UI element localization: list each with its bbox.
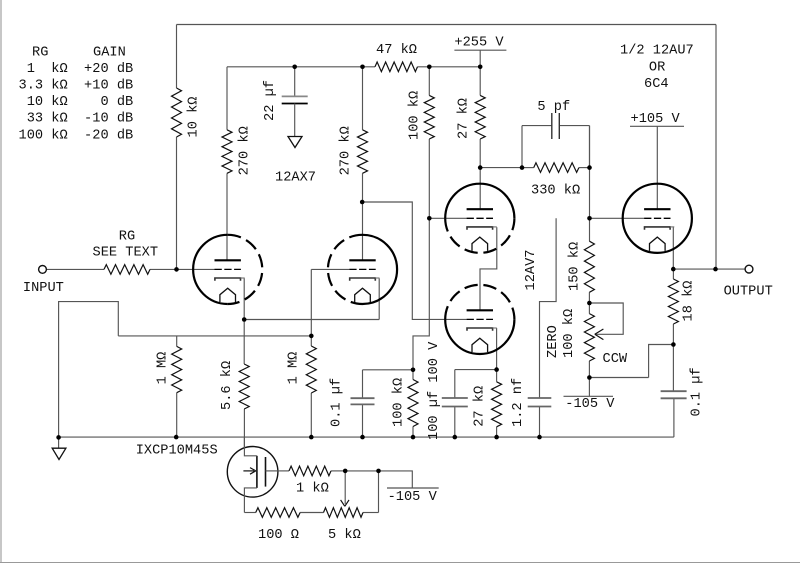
svg-text:OR: OR xyxy=(649,61,665,76)
svg-text:GAIN: GAIN xyxy=(93,45,126,60)
svg-text:5.6 kΩ: 5.6 kΩ xyxy=(220,361,235,410)
svg-text:12AV7: 12AV7 xyxy=(524,250,539,291)
svg-text:6C4: 6C4 xyxy=(644,77,669,92)
svg-text:IXCP10M45S: IXCP10M45S xyxy=(136,444,218,459)
svg-text:27 kΩ: 27 kΩ xyxy=(456,98,471,139)
svg-text:SEE TEXT: SEE TEXT xyxy=(93,246,159,261)
svg-text:0.1 µf: 0.1 µf xyxy=(690,367,705,416)
svg-text:+105 V: +105 V xyxy=(631,112,681,127)
svg-text:INPUT: INPUT xyxy=(23,281,64,296)
svg-text:47 kΩ: 47 kΩ xyxy=(376,43,417,58)
svg-text:22 µf: 22 µf xyxy=(263,80,278,121)
svg-text:18 kΩ: 18 kΩ xyxy=(681,281,696,322)
svg-text:12AX7: 12AX7 xyxy=(275,171,316,186)
svg-text:330 kΩ: 330 kΩ xyxy=(531,184,580,199)
svg-text:100 kΩ: 100 kΩ xyxy=(562,309,577,358)
svg-text:33 kΩ -10 dB: 33 kΩ -10 dB xyxy=(19,112,134,127)
svg-text:270 kΩ: 270 kΩ xyxy=(339,126,354,175)
svg-text:1 kΩ: 1 kΩ xyxy=(296,482,329,497)
svg-text:100 µf 100 V: 100 µf 100 V xyxy=(427,341,442,440)
svg-text:27 kΩ: 27 kΩ xyxy=(473,386,488,427)
svg-text:RG: RG xyxy=(32,45,48,60)
svg-text:100 Ω: 100 Ω xyxy=(258,528,299,543)
svg-text:0.1 µf: 0.1 µf xyxy=(330,378,345,427)
svg-text:+255 V: +255 V xyxy=(454,36,504,51)
svg-text:OUTPUT: OUTPUT xyxy=(724,285,773,300)
svg-text:1 MΩ: 1 MΩ xyxy=(287,352,302,385)
svg-text:10 kΩ 0 dB: 10 kΩ 0 dB xyxy=(19,95,134,110)
svg-text:1 kΩ +20 dB: 1 kΩ +20 dB xyxy=(19,62,134,77)
svg-text:RG: RG xyxy=(119,230,135,245)
svg-text:1 MΩ: 1 MΩ xyxy=(156,352,171,385)
svg-text:100 kΩ: 100 kΩ xyxy=(408,91,423,140)
svg-text:-105 V: -105 V xyxy=(565,397,615,412)
svg-text:1/2 12AU7: 1/2 12AU7 xyxy=(620,44,694,59)
svg-text:5 kΩ: 5 kΩ xyxy=(328,528,361,543)
svg-text:5 pf: 5 pf xyxy=(537,100,570,115)
svg-text:100 kΩ -20 dB: 100 kΩ -20 dB xyxy=(19,128,134,143)
svg-text:CCW: CCW xyxy=(603,352,628,367)
svg-text:-105 V: -105 V xyxy=(388,490,438,505)
svg-text:270 kΩ: 270 kΩ xyxy=(238,126,253,175)
svg-text:ZERO: ZERO xyxy=(546,325,561,358)
svg-text:1.2 nf: 1.2 nf xyxy=(511,378,526,427)
svg-text:10 kΩ: 10 kΩ xyxy=(187,97,202,138)
svg-text:150 kΩ: 150 kΩ xyxy=(568,242,583,291)
svg-text:3.3 kΩ +10 dB: 3.3 kΩ +10 dB xyxy=(19,79,134,94)
svg-text:100 kΩ: 100 kΩ xyxy=(392,378,407,427)
